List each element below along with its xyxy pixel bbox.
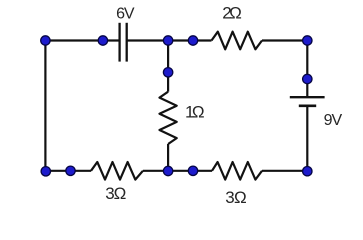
svg-text:3Ω: 3Ω	[105, 184, 126, 203]
svg-text:3Ω: 3Ω	[225, 188, 246, 207]
svg-text:9V: 9V	[324, 112, 343, 129]
svg-text:1Ω: 1Ω	[185, 103, 205, 122]
svg-text:2Ω: 2Ω	[222, 4, 242, 23]
svg-text:6V: 6V	[116, 6, 135, 23]
